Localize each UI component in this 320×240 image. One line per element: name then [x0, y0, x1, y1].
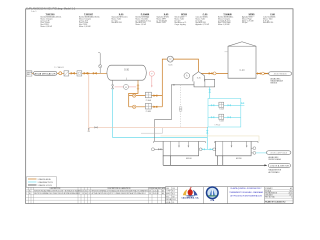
sheet border frame: [26, 9, 293, 204]
svg-text:1/1: 1/1: [172, 202, 174, 204]
dosing skid box: [208, 99, 241, 128]
pipe into M-200 at 246.7: [246, 141, 248, 146]
tank M-200: [215, 141, 258, 143]
svg-text:S-35: S-35: [197, 78, 201, 80]
title block frame: [166, 187, 294, 204]
wire sludge collector: [163, 164, 267, 166]
svg-text:AGUA DESCALCIF.: AGUA DESCALCIF.: [34, 72, 56, 75]
revision table: [26, 187, 166, 203]
valve dosing drop: [207, 130, 209, 133]
meter F2: [77, 71, 82, 76]
dosing pump T-50A: [208, 104, 241, 106]
dosing pump T-50B: [208, 116, 241, 118]
wire branch down pale: [88, 73, 90, 131]
wire pink stub2: [129, 86, 137, 88]
wire pump riser: [162, 59, 167, 107]
svg-text:CALDERERIA, S.A.: CALDERERIA, S.A.: [182, 197, 200, 200]
pump P-30A: [145, 92, 151, 98]
svg-text:LINEA REACTIVOS: LINEA REACTIVOS: [38, 181, 54, 184]
svg-text:REV: REV: [158, 188, 161, 190]
wire hopper outlet to C-20: [201, 72, 228, 74]
svg-text:LINEA DE AGUA: LINEA DE AGUA: [38, 178, 52, 181]
valve drain left: [112, 85, 114, 89]
valve split left: [202, 149, 205, 151]
svg-text:S/E: S/E: [172, 196, 174, 198]
wire cyan drain: [112, 89, 114, 138]
hopper S-35: [193, 72, 205, 82]
valve V1: [59, 72, 62, 75]
svg-text:P-30A: P-30A: [146, 99, 152, 102]
pipe into M-100 at 188.4: [187, 141, 189, 146]
svg-text:LODOS A GESTOR: LODOS A GESTOR: [270, 165, 290, 168]
wire cyan to clarified pill: [256, 152, 267, 154]
wire dosing drop: [206, 127, 209, 149]
svg-text:AGUA CLARIFICADA: AGUA CLARIFICADA: [271, 151, 288, 154]
wire blower outlet: [173, 59, 198, 71]
wire orange drain route: [129, 89, 138, 107]
vent pipe with valve: [99, 54, 101, 74]
wire basin cyan drop: [209, 87, 211, 99]
logo CALDERERIA: [182, 187, 200, 200]
wire pump branch P-30B: [129, 106, 163, 108]
valve M-100 right circle: [199, 148, 202, 151]
svg-text:POR: POR: [149, 188, 152, 190]
svg-text:ESC.: ESC.: [166, 196, 170, 198]
blower S-05: [167, 56, 173, 62]
valve cyan drop: [209, 89, 211, 92]
valve pale line: [95, 127, 98, 128]
valve M-200 left circle: [213, 148, 216, 151]
valve V2: [71, 72, 75, 74]
svg-text:PLANTA QUIMICA - DOSIFICACION: PLANTA QUIMICA - DOSIFICACION Y: [230, 187, 262, 190]
wire basin gray route to tank M-100: [154, 85, 194, 142]
valve M-100 left cluster: [157, 148, 163, 150]
pump M1 circle: [124, 84, 129, 89]
wire signal branch: [141, 128, 163, 133]
svg-text:LINEA DE LODOS: LINEA DE LODOS: [38, 184, 53, 187]
fields box: [265, 189, 294, 191]
valve drain right: [137, 85, 139, 89]
wire feed water line: [32, 72, 107, 74]
logo UTB: [207, 187, 219, 202]
instrument PI pink: [151, 76, 153, 86]
vessel S-30: [107, 65, 146, 80]
node label outlet pill: [269, 72, 292, 76]
wire signal dashed: [180, 85, 182, 128]
node feed inlet flag: [26, 71, 32, 76]
wire pump branch P-30A: [129, 95, 163, 97]
svg-text:UTB: UTB: [210, 200, 215, 202]
svg-text:OK: OK: [88, 193, 90, 195]
svg-text:S/E: S/E: [289, 190, 291, 192]
svg-text:C-20: C-20: [240, 70, 246, 72]
svg-text:M-100: M-100: [186, 158, 193, 160]
valve suction P-30A: [133, 94, 136, 97]
svg-text:2014: 2014: [172, 199, 176, 201]
wire drain left stub: [112, 80, 114, 85]
wire pink stub: [115, 86, 124, 88]
valve outlet 1: [257, 73, 260, 75]
valve suction P-30B: [133, 105, 136, 108]
svg-text:M-200: M-200: [236, 158, 243, 160]
agitator circle A: [184, 73, 190, 79]
wire C-20 top stub: [225, 51, 229, 53]
wire drain right stub: [137, 80, 139, 85]
svg-text:TRATAMIENTO DE AGUAS - DIAGRAM: TRATAMIENTO DE AGUAS - DIAGRAMA: [229, 191, 263, 194]
pipe into M-100 at 179.0: [178, 141, 180, 146]
strainer F1: [64, 71, 69, 76]
wire C-20 outlet: [256, 73, 269, 75]
node label clarified pill: [267, 151, 291, 155]
legend box: [27, 177, 57, 188]
svg-text:AGUA TRATADA: AGUA TRATADA: [274, 72, 288, 75]
valve check P-30B: [154, 106, 157, 108]
svg-text:DESCRIPCION: DESCRIPCION: [50, 188, 60, 190]
wire tank bottom drops: [162, 156, 164, 166]
svg-text:PLANO Nº 10-M-001 R.2: PLANO Nº 10-M-001 R.2: [265, 201, 285, 204]
svg-text:S-30: S-30: [124, 69, 130, 71]
valve check P-30A: [154, 95, 157, 97]
wire M-200 side stub 1: [251, 147, 253, 149]
valve hopper outlet: [209, 73, 212, 75]
svg-text:1 de 1: 1 de 1: [31, 11, 38, 13]
svg-text:DESDE: DESDE: [27, 72, 33, 74]
pump P-30B: [145, 103, 151, 109]
valve V4: [93, 72, 97, 74]
svg-text:OK: OK: [88, 190, 90, 192]
info mini table: [166, 189, 178, 191]
pipe into M-200 at 231.5: [231, 141, 233, 146]
svg-text:M: M: [125, 87, 127, 89]
svg-text:DE PROCESO E INSTRUMENTACION: DE PROCESO E INSTRUMENTACION: [230, 195, 262, 198]
wire pale recirculation: [89, 126, 208, 128]
tank M-100: [154, 141, 206, 143]
valve split right: [210, 149, 213, 151]
valve box outlet right: [241, 104, 245, 106]
valve outlet 2: [262, 72, 265, 75]
valve V3: [84, 72, 88, 74]
svg-text:C:/PLANOS/10-M-001-PID.dwg Mo: C:/PLANOS/10-M-001-PID.dwg Model 1:1: [26, 6, 76, 10]
svg-text:2014: 2014: [288, 192, 292, 194]
wire dosing split: [199, 148, 216, 150]
wire M-200 side stub 2: [251, 152, 253, 154]
svg-text:2: 2: [291, 197, 292, 199]
node label AGUA DESCALCIFICADA: [33, 71, 57, 75]
svg-text:P-30B: P-30B: [146, 111, 152, 113]
tank C-20: [228, 42, 256, 78]
basin tray: [194, 79, 215, 87]
junction tee: [88, 73, 89, 74]
node label sludge pill: [268, 163, 290, 167]
node end arrow: [88, 128, 90, 130]
svg-text:S-05: S-05: [168, 64, 172, 66]
wire tan feed to M-200: [161, 136, 260, 142]
svg-text:COMP.: COMP.: [166, 191, 171, 193]
